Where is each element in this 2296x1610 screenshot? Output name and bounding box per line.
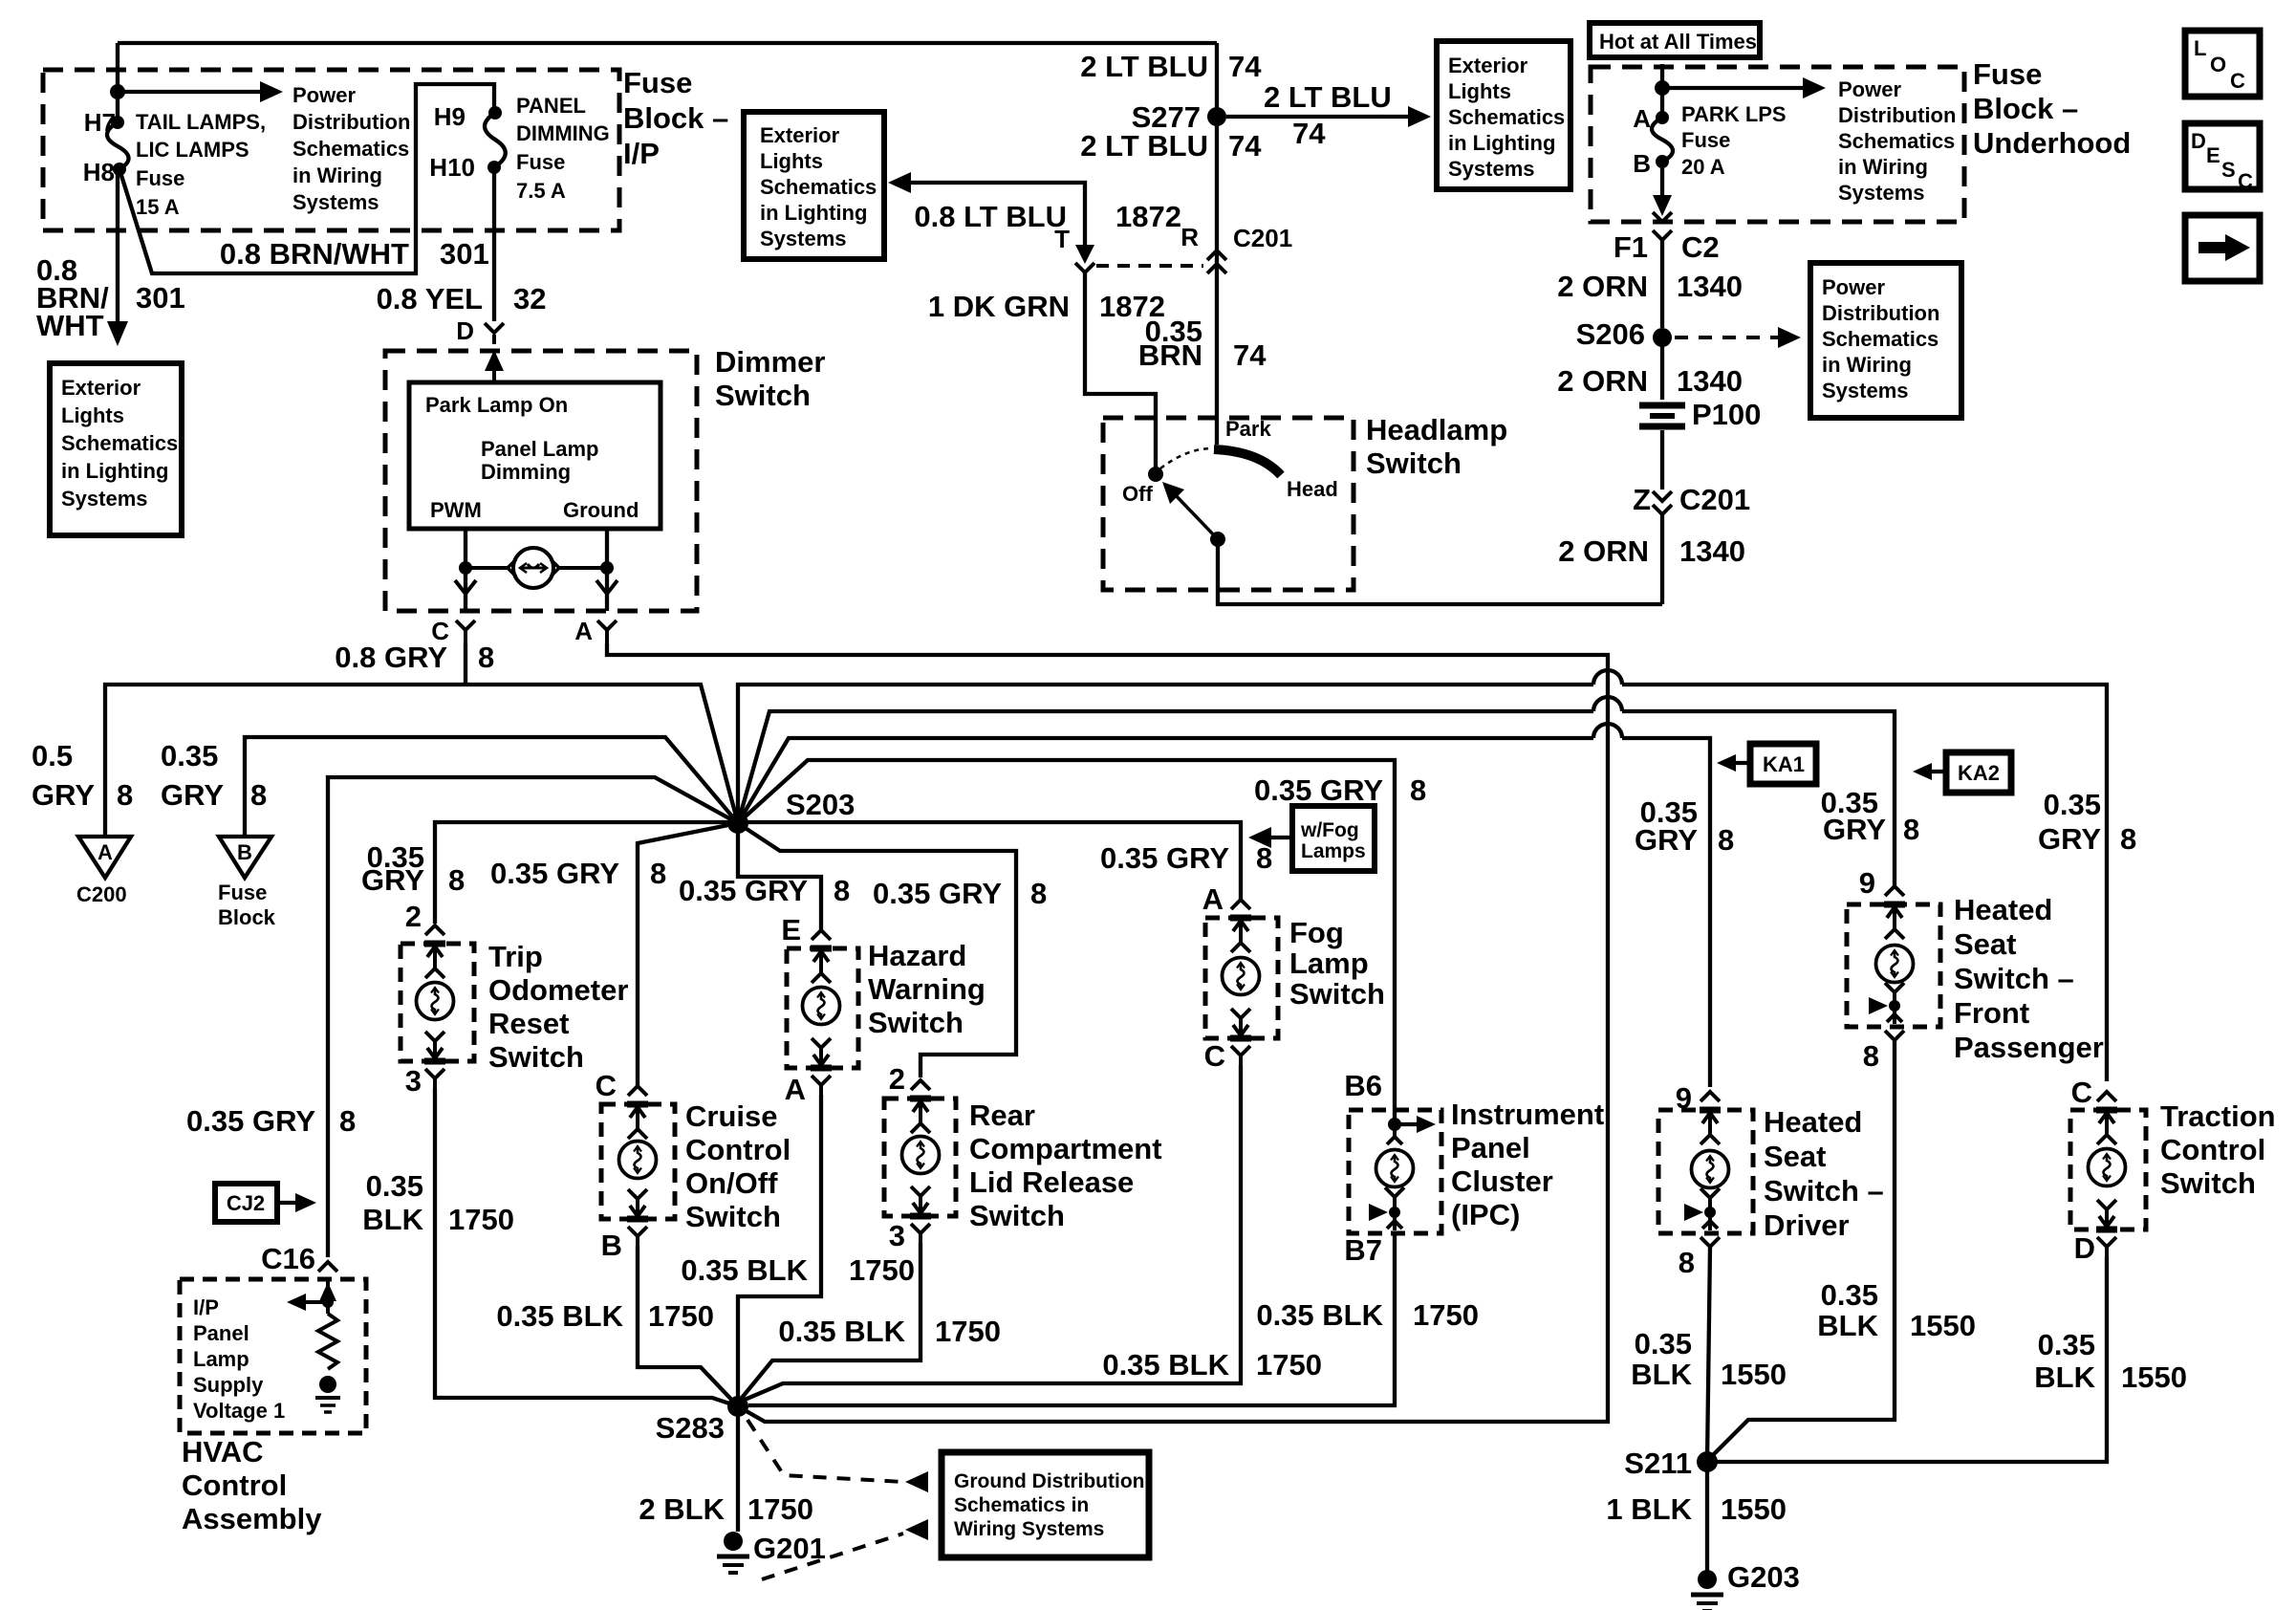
svg-text:(IPC): (IPC): [1451, 1198, 1520, 1231]
svg-text:Ground Distribution: Ground Distribution: [954, 1470, 1144, 1492]
box: DESC: [2185, 123, 2260, 189]
svg-text:HVAC: HVAC: [182, 1435, 264, 1469]
svg-text:A: A: [785, 1073, 806, 1106]
svg-text:0.35: 0.35: [1635, 1327, 1692, 1360]
svg-text:C2: C2: [1681, 230, 1720, 264]
wire: through bus to trip odometer and fog lamp: [435, 822, 1241, 924]
svg-text:Switch: Switch: [2160, 1166, 2256, 1200]
wire: hazard A to S283 (0.35 BLK 1750): [738, 1095, 821, 1397]
svg-text:1750: 1750: [448, 1203, 514, 1236]
wire: S283 to G201 (2 BLK 1750): [736, 1406, 740, 1532]
lamp passenger: [1876, 946, 1914, 983]
svg-text:GRY: GRY: [361, 863, 424, 897]
svg-text:in Wiring: in Wiring: [1822, 353, 1912, 377]
svg-text:Compartment: Compartment: [969, 1132, 1162, 1165]
node: S211: [1697, 1451, 1718, 1472]
svg-text:1550: 1550: [1910, 1309, 1976, 1342]
svg-text:Switch: Switch: [969, 1199, 1065, 1232]
svg-text:0.35 GRY: 0.35 GRY: [679, 874, 808, 907]
node: branch junction: [1655, 80, 1670, 96]
svg-text:15 A: 15 A: [136, 195, 180, 219]
wire: dimmer A to ground bus down right side: [607, 643, 1608, 1422]
svg-text:Fuse: Fuse: [1973, 57, 2042, 91]
svg-text:1550: 1550: [1721, 1492, 1787, 1526]
svg-text:Odometer: Odometer: [488, 973, 628, 1007]
wire: from ext lights box to T (0.8 LT BLU 1872): [888, 172, 911, 193]
svg-text:S206: S206: [1576, 317, 1645, 351]
svg-text:Seat: Seat: [1954, 927, 2016, 961]
hop: R2 over ground bus: [1593, 697, 1622, 711]
svg-text:in Wiring: in Wiring: [292, 163, 382, 187]
wire: drop into H7: [116, 43, 119, 117]
wire: driver 8 to S211 (0.35 BLK 1550): [1707, 1247, 1710, 1462]
svg-text:3: 3: [889, 1219, 905, 1252]
svg-text:74: 74: [1228, 129, 1262, 163]
dashed arrow S206 to power dist box: [1675, 336, 1780, 339]
svg-text:74: 74: [1228, 50, 1262, 83]
svg-text:Rear: Rear: [969, 1099, 1035, 1132]
headlamp switch dashed box: [1103, 418, 1354, 590]
svg-text:Driver: Driver: [1764, 1208, 1850, 1242]
switch lever arrow: [1172, 491, 1218, 539]
wire: cruise B to S283 (0.35 BLK 1750): [638, 1246, 738, 1406]
lamp cruise: [619, 1142, 657, 1179]
svg-text:Switch –: Switch –: [1954, 962, 2074, 995]
svg-text:B: B: [601, 1229, 622, 1262]
wire: Ground drop: [605, 529, 609, 611]
wire: passenger 8 to S211 (0.35 BLK 1550): [1706, 1040, 1895, 1462]
svg-text:8: 8: [448, 863, 465, 897]
svg-text:C201: C201: [1233, 224, 1292, 252]
wire: R4 to IPC B6: [738, 760, 1395, 1124]
pin C top: [2096, 1092, 2117, 1144]
wire: L1 bus to triangle A with C-tap: [105, 685, 738, 837]
lamp trip odometer: [417, 983, 454, 1020]
svg-text:Headlamp: Headlamp: [1366, 413, 1507, 446]
svg-text:Switch: Switch: [685, 1200, 781, 1233]
svg-text:S203: S203: [786, 788, 855, 821]
svg-text:2 BLK: 2 BLK: [639, 1492, 725, 1526]
svg-text:Schematics in: Schematics in: [954, 1494, 1089, 1516]
svg-text:Head: Head: [1287, 477, 1338, 501]
svg-text:Lights: Lights: [760, 149, 823, 173]
svg-text:0.35: 0.35: [2044, 788, 2101, 821]
svg-text:Systems: Systems: [1838, 181, 1925, 205]
svg-text:Heated: Heated: [1764, 1105, 1862, 1139]
svg-text:0.35 GRY: 0.35 GRY: [873, 877, 1002, 910]
svg-text:8: 8: [1863, 1039, 1879, 1073]
arrow from KA1: [1732, 761, 1750, 765]
svg-text:BLK: BLK: [362, 1203, 423, 1236]
dashed ref arrow 2 from G201: [762, 1534, 903, 1579]
svg-text:C200: C200: [76, 882, 127, 906]
svg-text:Systems: Systems: [1822, 379, 1909, 402]
svg-text:Block –: Block –: [623, 101, 728, 135]
resistor I/P panel lamp supply: [318, 1314, 337, 1369]
svg-text:D: D: [456, 316, 474, 345]
svg-text:Park Lamp On: Park Lamp On: [425, 393, 568, 417]
svg-text:PANEL: PANEL: [516, 94, 586, 118]
svg-text:0.35 BLK: 0.35 BLK: [496, 1299, 623, 1333]
wire: R2 to heated seat passenger: [738, 711, 1895, 885]
wire: arrow to Power Distribution text: [118, 90, 268, 94]
svg-text:GRY: GRY: [1823, 813, 1886, 846]
ground G201: [717, 1532, 749, 1573]
dashed ref arrow 1 from S283: [747, 1420, 903, 1482]
svg-text:Panel Lamp: Panel Lamp: [481, 437, 598, 461]
svg-text:74: 74: [1233, 338, 1267, 372]
dimmer inner box: [409, 382, 661, 529]
svg-text:BLK: BLK: [1817, 1309, 1878, 1342]
svg-text:Instrument: Instrument: [1451, 1098, 1604, 1131]
wire: L2 bus to triangle B: [245, 737, 738, 837]
lamp driver: [1692, 1151, 1729, 1188]
wire: S277 to ext lights box (2 LT BLU 74): [1226, 115, 1415, 119]
svg-text:Dimming: Dimming: [481, 460, 571, 484]
svg-text:Exterior: Exterior: [1448, 54, 1528, 77]
svg-text:20 A: 20 A: [1681, 155, 1725, 179]
svg-text:Hazard: Hazard: [868, 939, 966, 972]
svg-text:8: 8: [2120, 822, 2136, 856]
wire: C pin to gray bus (0.8 GRY 8): [464, 643, 467, 685]
arrow from KA2: [1928, 770, 1946, 773]
svg-text:Distribution: Distribution: [1822, 301, 1939, 325]
svg-text:Power: Power: [1838, 77, 1901, 101]
svg-text:Exterior: Exterior: [61, 376, 141, 400]
wire: B2 to hazard E: [738, 823, 821, 929]
arrow from CJ2: [277, 1201, 300, 1205]
svg-text:1340: 1340: [1677, 270, 1743, 303]
lamp IPC: [1376, 1150, 1414, 1187]
svg-text:Fuse: Fuse: [136, 166, 184, 190]
svg-text:Control: Control: [685, 1133, 791, 1166]
svg-text:w/Fog: w/Fog: [1300, 819, 1359, 841]
svg-text:Power: Power: [292, 83, 356, 107]
fuse F-H7/H8 TAIL LAMPS: [111, 116, 124, 129]
svg-text:1340: 1340: [1679, 534, 1745, 568]
svg-text:1 BLK: 1 BLK: [1606, 1492, 1692, 1526]
svg-text:B6: B6: [1344, 1069, 1382, 1102]
wire: B1 to cruise control C: [638, 823, 738, 1087]
svg-text:KA1: KA1: [1763, 752, 1805, 776]
svg-text:0.35: 0.35: [366, 1169, 423, 1203]
ref box: Exterior Lights Schematics (right): [1437, 41, 1570, 189]
svg-text:Schematics: Schematics: [1838, 129, 1955, 153]
svg-text:D: D: [2074, 1231, 2095, 1265]
connector: F1 / C2: [1653, 230, 1672, 240]
svg-text:8: 8: [1718, 823, 1734, 857]
wire: R3 to heated seat driver: [738, 738, 1710, 1087]
svg-text:1750: 1750: [747, 1492, 813, 1526]
svg-text:0.8 BRN/WHT: 0.8 BRN/WHT: [220, 237, 409, 271]
svg-text:Cruise: Cruise: [685, 1099, 777, 1133]
svg-text:R: R: [1180, 223, 1199, 251]
ref box: Power Distribution Schematics (right): [1810, 263, 1961, 418]
svg-text:Schematics: Schematics: [1822, 327, 1939, 351]
svg-text:C: C: [2238, 169, 2253, 193]
svg-text:BRN: BRN: [1138, 338, 1202, 372]
IPC bottom pin with arrow: [1385, 1187, 1404, 1230]
wire: L3 bus to HVAC: [328, 777, 738, 1257]
svg-text:Fuse: Fuse: [1681, 128, 1730, 152]
svg-text:Z: Z: [1633, 483, 1651, 516]
svg-text:Ground: Ground: [563, 498, 639, 522]
box: LOC: [2185, 31, 2260, 97]
svg-text:1750: 1750: [935, 1315, 1001, 1348]
pin 8 below box: [1885, 1031, 1904, 1040]
wire: arrow up inside dimmer: [492, 358, 496, 382]
svg-text:Exterior: Exterior: [760, 123, 840, 147]
svg-text:B: B: [237, 840, 252, 864]
svg-text:B: B: [1633, 149, 1651, 178]
svg-text:WHT: WHT: [36, 309, 104, 342]
bottom pin with arrow-dot: [1700, 1188, 1720, 1230]
svg-text:1750: 1750: [1256, 1348, 1322, 1382]
svg-text:Fuse: Fuse: [516, 150, 565, 174]
svg-text:G203: G203: [1727, 1560, 1800, 1594]
pin A bottom: [811, 1038, 832, 1097]
svg-text:2 ORN: 2 ORN: [1558, 534, 1649, 568]
box: CJ2: [215, 1184, 277, 1222]
svg-text:Heated: Heated: [1954, 893, 2052, 926]
svg-text:Off: Off: [1122, 482, 1153, 506]
svg-text:Switch: Switch: [715, 379, 811, 412]
svg-text:301: 301: [440, 237, 489, 271]
svg-text:Lights: Lights: [61, 403, 124, 427]
svg-text:I/P: I/P: [193, 1295, 219, 1319]
fuse PANEL DIMMING H9/H10: [488, 106, 502, 120]
lamp traction: [2089, 1149, 2126, 1186]
node: S283: [727, 1396, 748, 1417]
svg-text:I/P: I/P: [623, 137, 660, 170]
svg-text:B7: B7: [1344, 1233, 1382, 1267]
rheostat symbol between PWM and Ground: [466, 566, 509, 570]
fuse block I/P dashed box: [43, 70, 619, 230]
traction control dashed box: [2070, 1110, 2146, 1229]
svg-text:2 LT BLU: 2 LT BLU: [1080, 50, 1208, 83]
svg-text:Voltage 1: Voltage 1: [193, 1399, 285, 1423]
svg-text:KA2: KA2: [1958, 761, 2000, 785]
svg-text:Supply: Supply: [193, 1373, 264, 1397]
node: branch dot with left arrow: [322, 1296, 334, 1308]
pin A top: [1230, 900, 1251, 952]
node: B6 junction with arrow: [1388, 1118, 1401, 1131]
svg-text:0.35 GRY: 0.35 GRY: [186, 1104, 315, 1138]
svg-text:0.8 GRY: 0.8 GRY: [335, 641, 447, 674]
box: Hot at All Times: [1590, 23, 1760, 57]
svg-text:Lamp: Lamp: [193, 1347, 249, 1371]
rear compartment dashed box: [884, 1099, 956, 1216]
svg-text:0.35: 0.35: [2038, 1328, 2095, 1361]
wire: H8 down to Exterior Lights ref (0.8 BRN/WHT 301): [116, 172, 119, 331]
fog lamp dashed box: [1205, 918, 1278, 1038]
node: S277: [1207, 107, 1226, 126]
svg-text:Park: Park: [1225, 417, 1271, 441]
pin E top: [811, 930, 832, 983]
svg-text:in Lighting: in Lighting: [61, 459, 168, 483]
svg-text:Lamps: Lamps: [1301, 840, 1366, 862]
svg-text:Panel: Panel: [1451, 1131, 1530, 1164]
svg-text:BLK: BLK: [2034, 1360, 2095, 1394]
lamp fog: [1223, 958, 1260, 995]
svg-text:Schematics: Schematics: [760, 175, 877, 199]
svg-text:Assembly: Assembly: [182, 1502, 322, 1535]
svg-text:T: T: [1054, 225, 1070, 253]
svg-text:8: 8: [117, 778, 133, 812]
svg-text:C: C: [2230, 69, 2245, 93]
svg-text:C: C: [596, 1069, 617, 1102]
pin 2 top: [424, 925, 445, 978]
svg-text:0.35 BLK: 0.35 BLK: [778, 1315, 905, 1348]
hop: R3 over ground bus: [1593, 724, 1622, 738]
svg-text:in Wiring: in Wiring: [1838, 155, 1928, 179]
svg-text:8: 8: [650, 857, 666, 890]
hop: R1 over ground bus: [1593, 670, 1622, 685]
pin 3 bottom: [424, 1032, 445, 1090]
dashed line of C201: [1096, 264, 1203, 268]
svg-text:301: 301: [136, 281, 185, 315]
wire: headlamp bottom to underhood feed: [1218, 539, 1662, 604]
svg-text:D: D: [2191, 129, 2206, 153]
svg-text:0.35 GRY: 0.35 GRY: [1254, 773, 1383, 807]
pin D bottom: [2096, 1200, 2117, 1258]
svg-text:H8: H8: [83, 158, 115, 186]
ref box: Exterior Lights Schematics (middle): [744, 112, 884, 259]
svg-text:9: 9: [1859, 866, 1875, 900]
svg-text:2 LT BLU: 2 LT BLU: [1264, 80, 1392, 114]
svg-text:8: 8: [250, 778, 267, 812]
ref box: Exterior Lights Schematics (left): [50, 363, 182, 535]
svg-text:Distribution: Distribution: [292, 110, 410, 134]
svg-text:32: 32: [513, 282, 546, 315]
svg-text:Fuse: Fuse: [623, 66, 692, 99]
svg-text:in Lighting: in Lighting: [760, 201, 867, 225]
wire: 1 DK GRN 1872 from T to headlamp off terminal: [1085, 272, 1156, 468]
wire: B7 to S283 (0.35 BLK 1750): [748, 1233, 1395, 1405]
svg-text:8: 8: [1679, 1246, 1695, 1279]
svg-text:Block: Block: [218, 905, 276, 929]
svg-text:Cluster: Cluster: [1451, 1164, 1553, 1198]
svg-text:Switch: Switch: [868, 1006, 964, 1039]
node: Ground junction: [600, 561, 614, 575]
svg-text:On/Off: On/Off: [685, 1166, 778, 1200]
svg-text:S: S: [2221, 158, 2236, 182]
node: PWM junction: [459, 561, 472, 575]
node: Off terminal: [1148, 467, 1163, 482]
wire: B3 to rear compartment 2: [738, 823, 1016, 1077]
svg-text:Lights: Lights: [1448, 79, 1511, 103]
svg-text:8: 8: [339, 1104, 356, 1138]
svg-text:1872: 1872: [1116, 200, 1181, 233]
pin B bottom: [627, 1189, 648, 1248]
svg-text:2: 2: [889, 1062, 905, 1096]
svg-text:GRY: GRY: [161, 778, 224, 812]
svg-text:G201: G201: [753, 1532, 826, 1565]
connector: triangle B fuse block: [219, 837, 271, 878]
svg-text:DIMMING: DIMMING: [516, 121, 610, 145]
wire: hot feed into PARK LPS fuse: [1660, 64, 1664, 114]
svg-text:Fog: Fog: [1289, 916, 1344, 949]
passenger heated seat dashed box: [1847, 904, 1940, 1027]
wire: 2 LT BLU 74 vertical S277/R/park: [1215, 43, 1219, 445]
svg-text:0.35: 0.35: [1821, 1278, 1878, 1312]
svg-text:in Lighting: in Lighting: [1448, 131, 1555, 155]
svg-text:Systems: Systems: [61, 487, 148, 511]
svg-text:GRY: GRY: [1635, 823, 1698, 857]
svg-text:0.8 YEL: 0.8 YEL: [377, 282, 483, 315]
svg-text:E: E: [781, 913, 801, 946]
box: KA1: [1750, 744, 1816, 784]
svg-text:F1: F1: [1614, 230, 1648, 264]
underhood fuse block dashed box: [1591, 67, 1964, 222]
driver heated seat dashed box: [1658, 1110, 1753, 1233]
svg-text:Schematics: Schematics: [1448, 105, 1565, 129]
svg-text:A: A: [97, 840, 113, 864]
wire: arrow to power distribution: [1662, 86, 1810, 90]
svg-text:8: 8: [1256, 841, 1272, 875]
svg-text:PWM: PWM: [430, 498, 482, 522]
svg-text:8: 8: [1030, 877, 1047, 910]
svg-text:Hot at All Times: Hot at All Times: [1599, 30, 1757, 54]
svg-text:1340: 1340: [1677, 364, 1743, 398]
svg-text:2: 2: [405, 900, 422, 933]
svg-text:Block –: Block –: [1973, 92, 2078, 125]
svg-text:O: O: [2210, 53, 2226, 76]
svg-text:0.35 GRY: 0.35 GRY: [1100, 841, 1229, 875]
svg-text:BLK: BLK: [1631, 1358, 1692, 1391]
svg-text:1 DK GRN: 1 DK GRN: [928, 290, 1070, 323]
svg-text:Wiring Systems: Wiring Systems: [954, 1518, 1104, 1540]
pin arrow up inside: [326, 1279, 330, 1314]
bottom pin with arrow-dot: [1885, 983, 1904, 1024]
svg-text:8: 8: [1903, 813, 1919, 846]
svg-text:H9: H9: [434, 102, 466, 131]
node: S203: [727, 813, 748, 834]
svg-text:Dimmer: Dimmer: [715, 345, 825, 379]
svg-text:Control: Control: [2160, 1133, 2265, 1166]
svg-text:Seat: Seat: [1764, 1140, 1826, 1173]
svg-text:2 LT BLU: 2 LT BLU: [1080, 129, 1208, 163]
svg-text:C16: C16: [261, 1242, 315, 1275]
svg-text:H7: H7: [84, 108, 116, 137]
svg-text:Switch –: Switch –: [1764, 1174, 1884, 1207]
svg-text:CJ2: CJ2: [227, 1191, 265, 1215]
svg-text:Panel: Panel: [193, 1321, 249, 1345]
wire: fog C to S283 (0.35 BLK 1750): [738, 1065, 1241, 1403]
ref box: Ground Distribution Schematics in Wiring Systems: [942, 1452, 1149, 1557]
svg-text:2 ORN: 2 ORN: [1557, 270, 1648, 303]
svg-text:P100: P100: [1692, 398, 1761, 431]
svg-text:Power: Power: [1822, 275, 1885, 299]
dimmer switch dashed box: [385, 351, 697, 611]
wire: S211 to G203 (1 BLK 1550): [1705, 1462, 1709, 1572]
box: KA2: [1946, 752, 2011, 793]
wire: traction D to S211 (0.35 BLK 1550): [1707, 1256, 2107, 1462]
wire: S206 to P100: [1660, 337, 1664, 400]
svg-text:Traction: Traction: [2160, 1099, 2276, 1133]
wire: P100 to Z C201: [1660, 430, 1664, 490]
lamp rear compartment: [902, 1137, 940, 1174]
wire: PWM drop: [464, 529, 467, 611]
svg-text:8: 8: [1410, 773, 1426, 807]
svg-text:C201: C201: [1679, 483, 1750, 516]
svg-text:0.35 GRY: 0.35 GRY: [490, 857, 619, 890]
svg-text:Trip: Trip: [488, 940, 543, 973]
svg-text:3: 3: [405, 1064, 422, 1098]
svg-text:0.35 BLK: 0.35 BLK: [1102, 1348, 1229, 1382]
svg-text:A: A: [1202, 882, 1224, 916]
svg-text:0.35 BLK: 0.35 BLK: [681, 1253, 808, 1287]
